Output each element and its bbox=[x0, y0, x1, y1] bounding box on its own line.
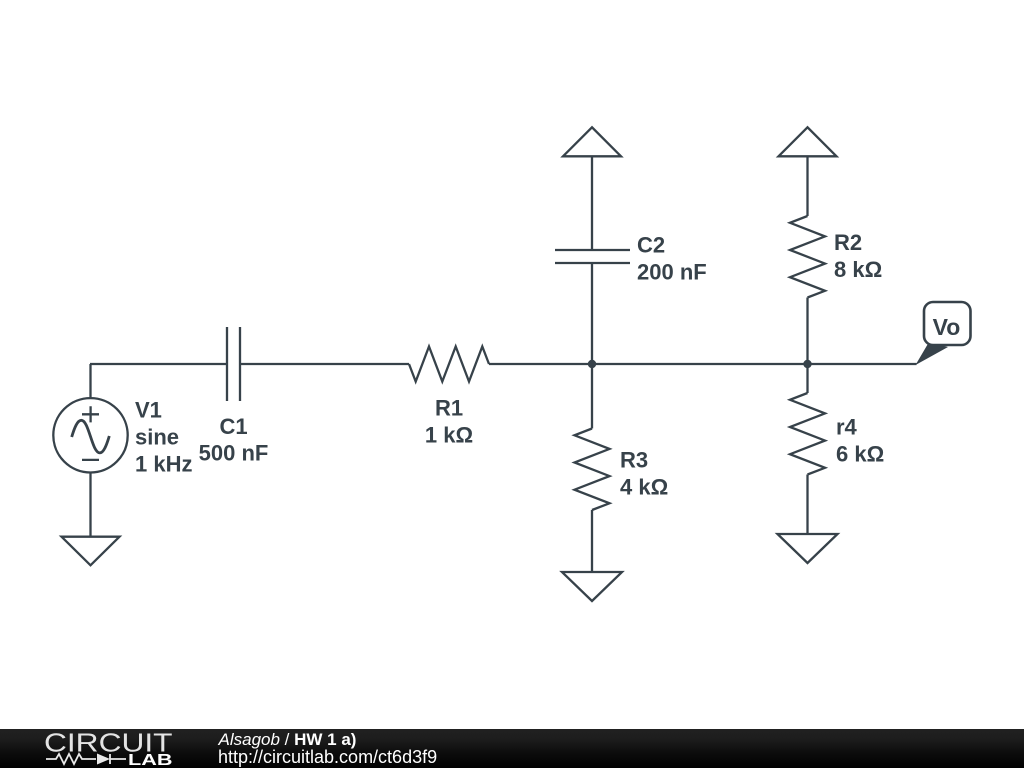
svg-text:1 kHz: 1 kHz bbox=[135, 452, 192, 477]
svg-text:Vo: Vo bbox=[933, 314, 961, 340]
svg-text:500 nF: 500 nF bbox=[199, 441, 269, 466]
svg-text:http://circuitlab.com/ct6d3f9: http://circuitlab.com/ct6d3f9 bbox=[218, 747, 437, 767]
svg-text:4 kΩ: 4 kΩ bbox=[620, 475, 668, 500]
svg-text:R1: R1 bbox=[435, 396, 463, 421]
svg-text:V1: V1 bbox=[135, 398, 162, 423]
svg-text:200 nF: 200 nF bbox=[637, 260, 707, 285]
svg-text:C2: C2 bbox=[637, 233, 665, 258]
svg-text:8 kΩ: 8 kΩ bbox=[834, 257, 882, 282]
svg-text:LAB: LAB bbox=[128, 752, 173, 768]
svg-text:C1: C1 bbox=[219, 414, 247, 439]
svg-text:1 kΩ: 1 kΩ bbox=[425, 423, 473, 448]
svg-text:R3: R3 bbox=[620, 448, 648, 473]
svg-text:R2: R2 bbox=[834, 230, 862, 255]
svg-text:6 kΩ: 6 kΩ bbox=[836, 442, 884, 467]
svg-text:sine: sine bbox=[135, 425, 179, 450]
svg-text:r4: r4 bbox=[836, 415, 858, 440]
